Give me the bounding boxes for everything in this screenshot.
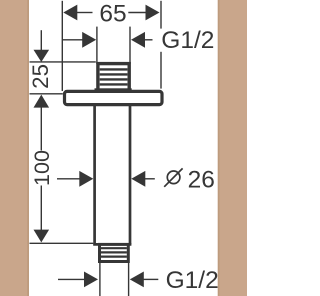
pipe left wall	[93, 106, 96, 245]
flange (ceiling escutcheon)	[65, 91, 163, 104]
svg-text:G1/2: G1/2	[166, 267, 219, 294]
O26 arrow pointing right	[79, 171, 93, 187]
G1/2 top dim stem right	[144, 39, 153, 41]
thread extension line right (top)	[129, 27, 131, 64]
part outline	[65, 64, 163, 262]
O26 dim stem left	[57, 178, 81, 180]
pipe bottom shoulder	[93, 243, 131, 246]
pipe right wall	[129, 106, 132, 245]
100 dim arrow down	[34, 230, 50, 243]
top thread block	[98, 64, 129, 91]
G1/2 top arrow pointing right	[82, 32, 96, 48]
tan side band right	[218, 0, 247, 296]
svg-text:65: 65	[99, 1, 126, 28]
extension line right of 65 dim (broken for G1/2 text)	[160, 1, 162, 29]
O26 arrow pointing left	[131, 171, 145, 187]
bottom G1/2 arrow pointing right	[84, 272, 98, 288]
tan band left inner shade	[27, 0, 29, 296]
dimension line 65 left segment	[77, 12, 93, 14]
G1/2 top dim stem left	[62, 39, 83, 41]
bottom thread block	[100, 244, 129, 261]
tan band right inner shade	[218, 0, 220, 296]
G1/2 top arrow pointing left	[131, 32, 145, 48]
65 dim arrow right	[146, 5, 160, 21]
25/100 arrow up	[34, 95, 50, 108]
svg-text:100: 100	[30, 150, 54, 186]
arrowheads	[34, 5, 160, 288]
thread extension line left (top)	[96, 27, 98, 64]
extension line at flange top level y=94	[30, 93, 63, 95]
svg-text:26: 26	[188, 167, 215, 194]
bottom thread extension line right	[128, 263, 130, 296]
65 dim arrow left	[63, 5, 77, 21]
bottom thread stripes	[101, 248, 127, 256]
bottom G1/2 arrow pointing left	[130, 272, 144, 288]
tan side band left	[0, 0, 29, 296]
O26 dim stem right	[144, 178, 155, 180]
extension line at pipe bottom level y=243	[30, 242, 94, 244]
diameter symbol	[164, 168, 182, 186]
extension line left of 65 dim	[61, 1, 63, 91]
top thread stripes	[100, 69, 128, 84]
svg-text:G1/2: G1/2	[161, 27, 214, 54]
bottom G1/2 dim stem left	[58, 278, 85, 280]
svg-text:25: 25	[28, 64, 53, 89]
dimension line 65 right segment	[128, 12, 146, 14]
extension line at thread top level y=62	[30, 61, 96, 63]
top thread bottom collar band	[95, 88, 132, 92]
bottom G1/2 dim stem right	[143, 278, 159, 280]
bottom thread extension line left	[99, 263, 101, 296]
25 dim arrow down	[34, 50, 50, 62]
25/100 vertical dimension line segments	[40, 30, 42, 50]
